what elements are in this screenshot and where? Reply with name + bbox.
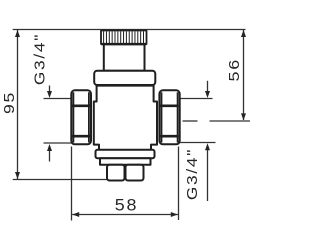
svg-text:G3/4": G3/4" — [184, 148, 201, 200]
svg-text:56: 56 — [225, 58, 242, 82]
svg-text:G3/4": G3/4" — [31, 33, 48, 85]
svg-text:95: 95 — [1, 91, 18, 114]
svg-text:58: 58 — [115, 195, 139, 214]
